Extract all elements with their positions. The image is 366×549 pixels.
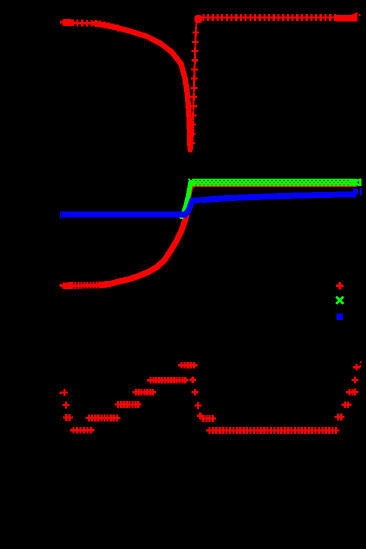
red sigmoid flat left line bbox=[62, 285, 102, 287]
blue square markers on left flat bbox=[62, 212, 185, 218]
blue square markers on plateau bbox=[191, 191, 356, 203]
scatter chain y=392 bbox=[133, 389, 157, 396]
scatter chain y=418 bbox=[200, 415, 216, 422]
red detached end dot bbox=[359, 14, 361, 16]
scatter chain y=430 bbox=[70, 427, 94, 434]
scatter right clipped dots bbox=[359, 365, 361, 368]
red sigmoid clipped first marker bbox=[60, 284, 62, 286]
red curve top-left flat line segment bbox=[62, 22, 96, 23]
legend blue square marker bbox=[337, 314, 344, 321]
red end band rising bump bbox=[352, 12, 358, 22]
scatter clipped left dot bbox=[60, 392, 62, 395]
green solid end cap bbox=[350, 179, 358, 186]
red sigmoid rising curve bbox=[100, 215, 187, 285]
green detached end mark bbox=[359, 178, 362, 186]
blue step diagonal bbox=[185, 200, 194, 215]
red notch right branch thin connecting line bbox=[191, 18, 200, 152]
red + markers on top-right flat bbox=[200, 14, 338, 21]
green plateau line bbox=[190, 181, 198, 184]
red top-right flat line bbox=[197, 16, 358, 18]
blue plateau line bbox=[193, 194, 357, 200]
blue detached end mark bbox=[360, 188, 362, 195]
blue left flat band line bbox=[65, 213, 186, 215]
legend green cross marker bbox=[336, 297, 343, 304]
scatter chain y=365 bbox=[178, 362, 197, 369]
legend red plus marker bbox=[336, 282, 343, 289]
red top-right corner blob bbox=[195, 15, 203, 23]
red + markers on notch right branch bbox=[188, 29, 199, 146]
green rising step curve bbox=[182, 182, 191, 216]
red + markers on top-left flat bbox=[60, 19, 121, 31]
scatter chain y=418 bbox=[86, 415, 121, 422]
blue end bump marker bbox=[353, 189, 358, 195]
red + markers on sigmoid flat bbox=[60, 281, 112, 289]
red curve top-left clipped first marker bbox=[60, 20, 62, 23]
scatter chain y=430 bbox=[206, 427, 339, 434]
red top-right solid end band bbox=[336, 15, 358, 22]
red notch left branch descending curve bbox=[95, 24, 190, 150]
green x markers on plateau bbox=[189, 179, 360, 186]
red sigmoid thin upper tail under green bbox=[187, 185, 196, 215]
red notch bottom dense blob bbox=[190, 130, 192, 151]
scatter chain y=405 bbox=[115, 401, 142, 408]
red sigmoid plateau line under green bbox=[196, 182, 358, 187]
scatter single + markers bbox=[61, 364, 360, 421]
scatter chain y=380 bbox=[147, 377, 189, 384]
blue left clipped marker dash bbox=[60, 211, 61, 218]
